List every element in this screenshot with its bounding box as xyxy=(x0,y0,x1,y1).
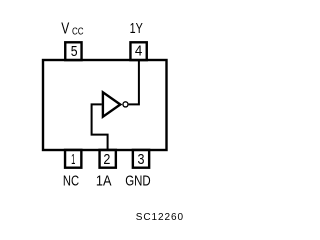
svg-text:1Y: 1Y xyxy=(130,20,143,37)
svg-text:CC: CC xyxy=(72,27,84,38)
svg-text:5: 5 xyxy=(71,43,78,60)
pin 4 box xyxy=(130,42,146,60)
svg-text:1: 1 xyxy=(71,151,75,168)
svg-text:3: 3 xyxy=(138,151,145,168)
svg-text:SC12260: SC12260 xyxy=(136,212,184,223)
pin 1 box xyxy=(65,150,81,168)
pin 2 box xyxy=(100,150,116,168)
svg-text:1A: 1A xyxy=(96,174,112,190)
svg-text:NC: NC xyxy=(63,174,79,190)
svg-text:4: 4 xyxy=(135,42,142,59)
svg-text:GND: GND xyxy=(125,174,150,190)
svg-text:V: V xyxy=(61,20,70,37)
wire: inverter output to pin 4 xyxy=(129,61,139,104)
inverter gate triangle xyxy=(103,92,120,116)
wire: pin 2 input to inverter (jogged segment) xyxy=(92,104,108,150)
svg-text:2: 2 xyxy=(103,151,110,168)
pin 5 box xyxy=(65,42,81,60)
IC package body U1 xyxy=(43,60,167,150)
pin 3 box xyxy=(133,150,149,168)
inverter output bubble xyxy=(123,102,128,107)
